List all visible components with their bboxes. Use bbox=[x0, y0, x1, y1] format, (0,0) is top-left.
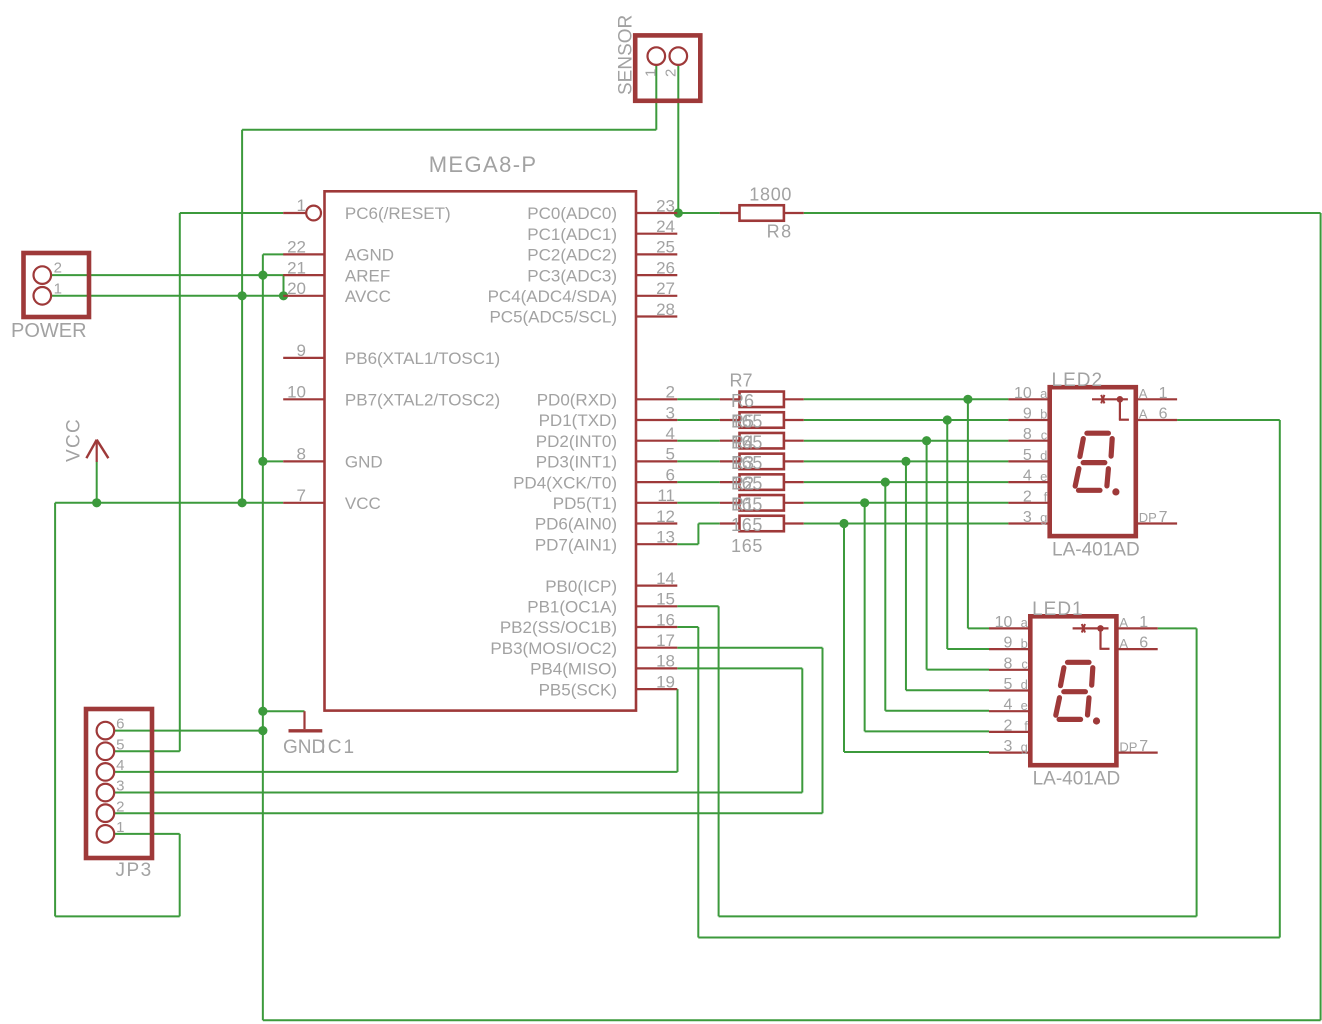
svg-text:2: 2 bbox=[666, 383, 675, 402]
svg-text:27: 27 bbox=[656, 279, 675, 298]
svg-text:165: 165 bbox=[731, 515, 763, 535]
svg-text:9: 9 bbox=[1003, 635, 1012, 652]
svg-text:28: 28 bbox=[656, 300, 675, 319]
svg-text:2: 2 bbox=[663, 69, 680, 77]
svg-text:d: d bbox=[1021, 677, 1028, 692]
svg-text:PD7(AIN1): PD7(AIN1) bbox=[535, 535, 617, 554]
svg-text:10: 10 bbox=[995, 614, 1013, 631]
svg-text:PC1(ADC1): PC1(ADC1) bbox=[527, 225, 617, 244]
svg-text:PD5(T1): PD5(T1) bbox=[553, 494, 617, 513]
svg-text:22: 22 bbox=[287, 238, 306, 257]
svg-text:17: 17 bbox=[656, 631, 675, 650]
svg-text:9: 9 bbox=[1023, 406, 1032, 423]
svg-text:25: 25 bbox=[656, 238, 675, 257]
svg-text:VCC: VCC bbox=[345, 494, 381, 513]
svg-text:PC5(ADC5/SCL): PC5(ADC5/SCL) bbox=[489, 308, 617, 327]
svg-text:PD2(INT0): PD2(INT0) bbox=[536, 432, 617, 451]
svg-text:21: 21 bbox=[287, 258, 306, 277]
svg-text:20: 20 bbox=[287, 279, 306, 298]
svg-text:g: g bbox=[1021, 739, 1028, 754]
svg-text:f: f bbox=[1044, 490, 1048, 505]
svg-text:e: e bbox=[1040, 469, 1047, 484]
svg-text:GND: GND bbox=[345, 453, 383, 472]
svg-text:PB2(SS/OC1B): PB2(SS/OC1B) bbox=[500, 618, 617, 637]
svg-text:PB0(ICP): PB0(ICP) bbox=[545, 577, 617, 596]
svg-text:165: 165 bbox=[731, 474, 763, 494]
svg-text:PD0(RXD): PD0(RXD) bbox=[537, 391, 617, 410]
svg-text:3: 3 bbox=[116, 778, 124, 795]
svg-text:g: g bbox=[1040, 510, 1047, 525]
svg-text:5: 5 bbox=[1003, 676, 1012, 693]
svg-text:PD1(TXD): PD1(TXD) bbox=[539, 411, 617, 430]
svg-text:3: 3 bbox=[1023, 509, 1032, 526]
svg-text:14: 14 bbox=[656, 569, 675, 588]
svg-text:A: A bbox=[1119, 615, 1128, 630]
svg-text:8: 8 bbox=[297, 445, 306, 464]
svg-text:A: A bbox=[1139, 386, 1148, 401]
svg-text:R7: R7 bbox=[730, 371, 753, 391]
svg-text:5: 5 bbox=[1023, 447, 1032, 464]
svg-text:PB3(MOSI/OC2): PB3(MOSI/OC2) bbox=[490, 639, 617, 658]
svg-text:7: 7 bbox=[297, 486, 306, 505]
svg-text:4: 4 bbox=[1023, 468, 1032, 485]
svg-text:6: 6 bbox=[1159, 406, 1168, 423]
svg-text:11: 11 bbox=[657, 486, 675, 505]
svg-text:c: c bbox=[1041, 427, 1048, 442]
svg-text:AREF: AREF bbox=[345, 266, 390, 285]
svg-text:26: 26 bbox=[656, 258, 675, 277]
svg-text:PB5(SCK): PB5(SCK) bbox=[539, 680, 617, 699]
svg-text:16: 16 bbox=[656, 610, 675, 629]
svg-text:165: 165 bbox=[731, 432, 763, 452]
svg-text:2: 2 bbox=[1023, 488, 1032, 505]
svg-text:JP3: JP3 bbox=[116, 860, 153, 881]
svg-text:1: 1 bbox=[116, 819, 124, 836]
svg-text:4: 4 bbox=[116, 757, 124, 774]
svg-text:AVCC: AVCC bbox=[345, 287, 391, 306]
svg-text:VCC: VCC bbox=[64, 418, 85, 462]
svg-text:e: e bbox=[1021, 698, 1028, 713]
svg-text:PC6(/RESET): PC6(/RESET) bbox=[345, 204, 451, 223]
svg-text:7: 7 bbox=[1139, 738, 1148, 755]
svg-text:8: 8 bbox=[1003, 655, 1012, 672]
svg-text:5: 5 bbox=[666, 445, 675, 464]
svg-text:b: b bbox=[1040, 407, 1047, 422]
svg-text:1800: 1800 bbox=[749, 185, 792, 205]
svg-text:165: 165 bbox=[731, 453, 763, 473]
svg-text:R8: R8 bbox=[767, 222, 793, 242]
svg-text:GND: GND bbox=[283, 737, 325, 758]
svg-text:LED1: LED1 bbox=[1032, 599, 1084, 620]
svg-text:1: 1 bbox=[1139, 614, 1148, 631]
svg-text:3: 3 bbox=[1003, 738, 1012, 755]
svg-text:18: 18 bbox=[656, 652, 675, 671]
svg-text:LA-401AD: LA-401AD bbox=[1052, 540, 1140, 561]
svg-text:PB6(XTAL1/TOSC1): PB6(XTAL1/TOSC1) bbox=[345, 349, 500, 368]
svg-text:PB4(MISO): PB4(MISO) bbox=[530, 660, 617, 679]
svg-text:LA-401AD: LA-401AD bbox=[1033, 769, 1121, 790]
svg-text:165: 165 bbox=[731, 412, 763, 432]
svg-text:4: 4 bbox=[1003, 697, 1012, 714]
svg-text:10: 10 bbox=[1014, 385, 1032, 402]
svg-text:1: 1 bbox=[642, 69, 659, 77]
svg-text:f: f bbox=[1024, 719, 1028, 734]
svg-text:DP: DP bbox=[1119, 739, 1137, 754]
svg-text:19: 19 bbox=[656, 672, 675, 691]
svg-text:c: c bbox=[1021, 657, 1028, 672]
svg-text:PB7(XTAL2/TOSC2): PB7(XTAL2/TOSC2) bbox=[345, 391, 500, 410]
svg-text:DP: DP bbox=[1139, 510, 1157, 525]
svg-text:A: A bbox=[1119, 636, 1128, 651]
svg-text:3: 3 bbox=[666, 403, 675, 422]
svg-text:AGND: AGND bbox=[345, 246, 394, 265]
svg-text:4: 4 bbox=[666, 424, 675, 443]
svg-text:1: 1 bbox=[297, 196, 306, 215]
svg-text:1: 1 bbox=[54, 280, 62, 297]
svg-text:PC0(ADC0): PC0(ADC0) bbox=[527, 204, 617, 223]
svg-text:12: 12 bbox=[656, 507, 675, 526]
svg-text:b: b bbox=[1021, 636, 1028, 651]
svg-text:9: 9 bbox=[297, 341, 306, 360]
svg-text:a: a bbox=[1040, 386, 1048, 401]
svg-text:PD3(INT1): PD3(INT1) bbox=[536, 453, 617, 472]
svg-text:PC2(ADC2): PC2(ADC2) bbox=[527, 246, 617, 265]
svg-text:15: 15 bbox=[656, 590, 675, 609]
svg-text:PB1(OC1A): PB1(OC1A) bbox=[527, 598, 617, 617]
svg-text:d: d bbox=[1040, 448, 1047, 463]
svg-text:PD6(AIN0): PD6(AIN0) bbox=[535, 515, 617, 534]
svg-text:PC3(ADC3): PC3(ADC3) bbox=[527, 266, 617, 285]
svg-text:A: A bbox=[1139, 407, 1148, 422]
svg-text:6: 6 bbox=[666, 465, 675, 484]
svg-text:2: 2 bbox=[1003, 717, 1012, 734]
svg-text:165: 165 bbox=[731, 536, 763, 556]
svg-text:a: a bbox=[1021, 615, 1029, 630]
svg-text:MEGA8-P: MEGA8-P bbox=[429, 152, 538, 177]
svg-text:5: 5 bbox=[116, 736, 124, 753]
svg-text:10: 10 bbox=[287, 383, 306, 402]
svg-text:PD4(XCK/T0): PD4(XCK/T0) bbox=[513, 473, 617, 492]
svg-text:13: 13 bbox=[656, 528, 675, 547]
svg-text:R6: R6 bbox=[731, 391, 754, 411]
svg-text:24: 24 bbox=[656, 217, 675, 236]
svg-text:7: 7 bbox=[1159, 509, 1168, 526]
svg-text:23: 23 bbox=[656, 196, 675, 215]
svg-text:2: 2 bbox=[116, 798, 124, 815]
svg-text:6: 6 bbox=[116, 716, 124, 733]
svg-text:2: 2 bbox=[54, 260, 62, 277]
svg-text:IC1: IC1 bbox=[321, 737, 357, 758]
svg-text:6: 6 bbox=[1139, 635, 1148, 652]
svg-text:PC4(ADC4/SDA): PC4(ADC4/SDA) bbox=[488, 287, 617, 306]
svg-text:LED2: LED2 bbox=[1052, 370, 1104, 391]
svg-text:8: 8 bbox=[1023, 426, 1032, 443]
svg-text:POWER: POWER bbox=[11, 320, 87, 342]
svg-text:165: 165 bbox=[731, 494, 763, 514]
svg-text:1: 1 bbox=[1159, 385, 1168, 402]
svg-text:SENSOR: SENSOR bbox=[616, 15, 637, 95]
